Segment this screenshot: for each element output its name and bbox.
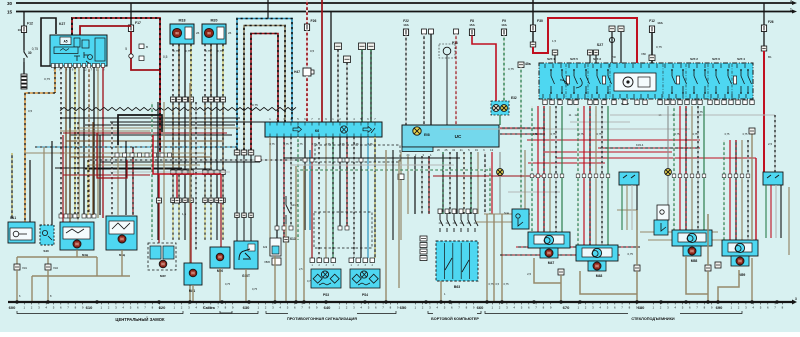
svg-text:M: M — [120, 237, 124, 242]
wire F30 down — [532, 32, 534, 43]
svg-text:1,5: 1,5 — [552, 39, 557, 43]
svg-text:26: 26 — [228, 31, 232, 35]
wire F12r down — [651, 33, 653, 64]
svg-text:X13: X13 — [290, 237, 296, 241]
wire H47 to K6 unit — [306, 76, 308, 122]
svg-text:10A: 10A — [657, 21, 663, 25]
S27 interior pin stubs — [543, 64, 746, 98]
wire stub x596 — [595, 55, 597, 63]
window motor M18 — [170, 19, 200, 45]
wire K27 loop — [41, 18, 56, 66]
wire F12 to switch — [23, 33, 25, 51]
connector H47 — [294, 68, 314, 76]
wire below lamp E51 right — [667, 175, 669, 205]
svg-text:0,75: 0,75 — [675, 133, 680, 136]
svg-text:M: M — [161, 262, 165, 267]
wire black loop left — [118, 115, 162, 145]
connector low x211 — [209, 198, 214, 203]
svg-text:0,75: 0,75 — [743, 133, 748, 136]
wire mesh h y147 — [35, 146, 237, 148]
wire feeder x133 — [132, 147, 134, 215]
wire green x521 — [520, 68, 522, 210]
wire continue x191 — [190, 103, 192, 171]
svg-text:10A: 10A — [403, 23, 409, 27]
wire feeder x93 — [92, 122, 94, 215]
wire below lamp E51 left — [499, 175, 501, 214]
wire ECU pin x55 — [54, 67, 56, 93]
connector KV — [749, 128, 755, 134]
ignition switch S dashed — [286, 196, 298, 224]
wire feeder x164 — [163, 102, 165, 240]
connector pair 350 360 — [422, 29, 434, 34]
wire to M50 top — [220, 203, 222, 247]
svg-text:2,5: 2,5 — [299, 267, 303, 271]
wire B63 to rail — [440, 281, 442, 302]
svg-text:ХЭ1: ХЭ1 — [22, 266, 28, 270]
wire feeder x100 — [99, 135, 101, 215]
wire continue3 x217 — [216, 203, 218, 241]
dashed outline alarm lower — [314, 212, 372, 248]
svg-text:M: M — [75, 242, 79, 247]
window motor assembly M47 — [528, 232, 570, 258]
wire drop x17 — [16, 257, 18, 264]
light switch unit S27 — [539, 43, 753, 99]
S27 section dividers — [566, 64, 732, 98]
wire K6 bottom x305 — [304, 137, 306, 230]
connector XB05 — [264, 258, 281, 265]
lamp unit E32 — [491, 101, 509, 115]
wire tan drop x487 — [486, 214, 488, 302]
svg-text:3: 3 — [795, 297, 797, 301]
connector under motor x179 — [177, 97, 182, 102]
motor M50 — [216, 253, 224, 261]
wire group x698 — [697, 106, 699, 230]
window lift console switches right — [763, 172, 783, 185]
connector low x185 — [183, 198, 188, 203]
rail junction dots — [15, 300, 778, 303]
wire feeder x44 — [43, 147, 45, 228]
fuse F26 — [304, 24, 309, 31]
wire M59 right to rail — [751, 258, 753, 302]
svg-text:3: 3 — [790, 0, 792, 3]
wire feeder x126 — [125, 141, 127, 215]
bracket alarm — [266, 311, 396, 314]
connector X44 — [157, 198, 162, 203]
svg-text:S27.5: S27.5 — [570, 57, 578, 61]
svg-text:15A: 15A — [469, 23, 475, 27]
wire continue x211 — [210, 103, 212, 171]
connector hairpin x237 — [234, 150, 240, 155]
svg-text:0,75: 0,75 — [489, 282, 495, 286]
motor M59 — [736, 257, 744, 265]
wire feeder x152 — [151, 102, 153, 240]
lamp in E32 right — [501, 105, 508, 112]
symbol PB6 — [609, 37, 614, 42]
wire drop x371 — [370, 50, 372, 123]
wire mesh h y122 — [110, 121, 265, 123]
wire red drop x177 — [176, 174, 178, 198]
svg-text:670: 670 — [563, 305, 570, 310]
wire tan drop x494 — [493, 214, 495, 302]
wire top black x533 — [532, 0, 534, 25]
svg-text:PS4: PS4 — [362, 293, 368, 297]
wire G10T to rail — [245, 269, 247, 302]
wire below X13 — [285, 242, 287, 302]
svg-text:26: 26 — [196, 31, 200, 35]
wire red drop x159 — [158, 174, 160, 198]
wire E32 to UC — [499, 115, 501, 125]
svg-text:M58: M58 — [691, 259, 698, 263]
motor M47 — [545, 249, 553, 257]
wire red loop left — [97, 133, 127, 178]
wire mesh right y170 — [298, 169, 490, 171]
wire mesh right y163 — [528, 162, 605, 164]
wire red from ECU pin — [80, 26, 131, 35]
wire M18 pin 1 — [172, 44, 174, 97]
wire ECU pin x84 — [83, 67, 85, 218]
wire X4 drop — [707, 214, 709, 265]
wire X1 to rail — [560, 275, 562, 302]
svg-text:0,75: 0,75 — [283, 142, 289, 146]
svg-text:0,75: 0,75 — [217, 49, 223, 53]
wire M18 pin 3 — [184, 44, 186, 97]
bracket computer — [428, 311, 481, 314]
wire UC bottom x408 — [407, 156, 409, 214]
lock actuator M mid — [106, 216, 137, 250]
wire group x736 — [735, 140, 737, 240]
wire K6 bottom x361 — [360, 137, 362, 258]
wire continue2 x205 — [204, 175, 206, 199]
wire feeder x70 — [69, 128, 71, 224]
wire tan drop x502 — [501, 214, 503, 302]
wire continue x173 — [172, 103, 174, 171]
wire feeder x12 — [11, 153, 13, 218]
wire drop x338 — [337, 50, 339, 123]
wire mesh right y122 — [570, 121, 630, 123]
connector mid x211 — [209, 170, 214, 175]
wire M20 pin 2 — [210, 44, 212, 97]
wire K6 bottom x284 — [283, 137, 285, 240]
wire continue x205 — [204, 103, 206, 171]
wire drop2 x17 — [16, 270, 18, 302]
svg-text:0,5: 0,5 — [28, 109, 33, 113]
wire K6 bottom x354 — [353, 137, 355, 258]
svg-text:40a: 40a — [525, 62, 531, 66]
wire mesh h y141 — [66, 140, 222, 142]
wire K6 bottom x291 — [290, 137, 292, 230]
wire UC bottom x471 — [470, 152, 472, 214]
svg-text:A5: A5 — [63, 40, 67, 44]
svg-text:0,75: 0,75 — [508, 67, 514, 71]
wire tan x296 — [295, 166, 297, 302]
wire UC bottom x464 — [463, 152, 465, 214]
wire mesh right y115 — [610, 114, 775, 116]
wire mesh right y240 — [648, 239, 740, 241]
connector low x223 — [221, 198, 226, 203]
svg-text:0,75: 0,75 — [656, 45, 662, 49]
svg-text:M47: M47 — [548, 261, 555, 265]
wire hairpin drop x244 — [243, 155, 245, 213]
wire X2 to rail — [636, 271, 638, 302]
wire drop x347 — [346, 63, 348, 123]
wire drop x97 — [96, 257, 98, 276]
wire K6 bottom x319 — [318, 137, 320, 258]
wire tall tan — [189, 83, 191, 302]
wire continue x223 — [222, 103, 224, 171]
wire red right edge — [763, 51, 765, 172]
connector low x173 — [171, 198, 176, 203]
pin connectors PS4 — [349, 258, 375, 267]
wire from rail 15 to fuse F12 — [23, 12, 25, 27]
connector 30a — [552, 50, 558, 55]
onboard computer unit UC — [402, 125, 499, 152]
connector under motor x191 — [189, 97, 194, 102]
svg-text:0,75: 0,75 — [725, 133, 730, 136]
svg-text:S27: S27 — [597, 43, 603, 47]
wire group x686 — [685, 106, 687, 230]
svg-text:F12: F12 — [649, 19, 655, 23]
svg-text:630: 630 — [243, 305, 250, 310]
wire K6 bottom x298 — [297, 137, 299, 240]
wire blue x310 — [309, 150, 311, 230]
svg-text:S1/27: S1/27 — [291, 203, 298, 207]
wire tan bus2 — [32, 275, 130, 277]
fuse F8 — [469, 29, 474, 36]
window lift console switches left — [619, 172, 639, 185]
svg-text:B: B — [146, 45, 148, 49]
wire mesh h y135 — [70, 134, 232, 136]
wire black x331 — [330, 12, 332, 123]
wire hairpin drop2 x251 — [250, 218, 252, 249]
svg-text:2,5: 2,5 — [768, 142, 773, 146]
svg-text:0,75: 0,75 — [339, 142, 345, 146]
wire tan x752 — [751, 134, 753, 240]
connector X4 — [705, 265, 711, 271]
wire mesh h y172 — [110, 171, 230, 173]
wire group x550 — [549, 106, 551, 232]
connector top x338 — [335, 43, 342, 50]
wire tan x399 — [398, 160, 400, 288]
wire K6 bottom x347 — [346, 137, 348, 230]
window motor M20 — [202, 19, 232, 45]
switch row above B63 — [438, 209, 478, 232]
wire x401 drop — [400, 152, 402, 240]
svg-text:S27.4: S27.4 — [737, 57, 745, 61]
wire stub S27 x555 — [554, 55, 556, 63]
svg-text:610: 610 — [86, 305, 93, 310]
svg-text:M: M — [595, 264, 599, 269]
svg-text:1: 1 — [790, 8, 792, 12]
ECU bottom pin tabs — [51, 64, 104, 68]
svg-text:0,75: 0,75 — [693, 133, 698, 136]
connector under motor x185 — [183, 97, 188, 102]
values under K6 — [269, 142, 373, 146]
svg-text:K33.4: K33.4 — [636, 143, 644, 147]
wire mesh h y131 — [60, 130, 150, 132]
window motor assembly M48 — [576, 245, 618, 271]
wire K6 bottom x375 — [374, 137, 376, 258]
wire red x756 to M59 — [755, 158, 757, 240]
svg-text:UC: UC — [455, 134, 462, 139]
connector under motor x211 — [209, 97, 214, 102]
wire hairpin drop2 x244 — [243, 218, 245, 249]
wire continue2 x211 — [210, 175, 212, 199]
wire to lamp E51 left — [499, 152, 501, 169]
connector X1 — [558, 269, 564, 275]
connector 40d — [618, 26, 624, 32]
wire mesh right y140 — [527, 139, 700, 141]
ground rail bottom — [8, 297, 797, 305]
fuse F30 — [530, 25, 535, 32]
svg-text:0,75: 0,75 — [252, 287, 258, 291]
wire group x562 — [561, 106, 563, 232]
wire ECU pin x66 — [65, 67, 67, 218]
wire top to F26 — [306, 0, 308, 24]
svg-text:Calibra: Calibra — [203, 306, 215, 310]
svg-text:ХЭ4: ХЭ4 — [53, 266, 59, 270]
wires below console right — [766, 185, 781, 238]
lamp E51 left — [497, 169, 504, 176]
wire M18 pin 2 — [178, 44, 180, 97]
wire tall gray — [195, 102, 197, 250]
svg-text:S27.2: S27.2 — [690, 57, 698, 61]
connector under motor x205 — [203, 97, 208, 102]
wire group x590 — [589, 106, 591, 245]
S27 bottom pin connectors — [543, 100, 754, 105]
svg-text:H47: H47 — [294, 70, 300, 74]
svg-text:M48: M48 — [596, 274, 603, 278]
svg-text:S40: S40 — [43, 249, 49, 253]
wire mesh h y160 — [90, 159, 310, 161]
dashed outline alarm relay — [315, 145, 400, 162]
svg-text:M: M — [191, 271, 195, 276]
wire group x730 — [729, 140, 731, 240]
wire continue2 x173 — [172, 175, 174, 199]
actuator M50 — [210, 247, 230, 268]
bracket calibra — [220, 311, 232, 313]
wire continue3 x205 — [204, 203, 206, 241]
wire group x596 — [595, 106, 597, 245]
svg-text:F26: F26 — [311, 19, 317, 23]
wire rail30 to F17 — [130, 3, 132, 25]
svg-text:30: 30 — [28, 51, 32, 55]
connector X2 — [634, 265, 640, 271]
svg-text:680: 680 — [638, 305, 645, 310]
svg-text:0,75: 0,75 — [353, 142, 359, 146]
wires below console left — [622, 185, 637, 230]
wire UC bottom x415 — [414, 156, 416, 214]
wire mesh right y255 — [500, 254, 620, 256]
wire red top x322 — [321, 0, 323, 122]
wire tan x304 — [303, 166, 305, 302]
wire group x602 — [601, 106, 603, 245]
fuse F17 — [128, 25, 133, 32]
connector stack left of B63 — [420, 236, 427, 261]
wire drop x32 — [31, 276, 33, 302]
connector row under ECU wires — [59, 214, 96, 218]
svg-text:B63: B63 — [454, 285, 460, 289]
wire group x742 — [741, 140, 743, 240]
fuse F9 — [501, 29, 506, 36]
svg-text:10: 10 — [18, 28, 22, 32]
wire K6 bottom x368 — [367, 137, 369, 258]
svg-text:0,75: 0,75 — [185, 49, 191, 53]
wire M20 pin 3 — [216, 44, 218, 97]
wire tan right edge — [788, 187, 790, 255]
wire mesh h y157 — [70, 156, 210, 158]
svg-text:0,75: 0,75 — [311, 142, 317, 146]
connector under motor x217 — [215, 97, 220, 102]
svg-text:S27.3: S27.3 — [593, 57, 601, 61]
wire blk x393 — [392, 150, 394, 240]
svg-text:M41: M41 — [189, 289, 195, 293]
svg-text:600: 600 — [9, 305, 16, 310]
wire group x578 — [577, 106, 579, 245]
window motor assembly M58 — [672, 230, 712, 256]
connector B right — [761, 46, 767, 51]
svg-text:0,75: 0,75 — [252, 103, 258, 107]
wire feeder x78 — [77, 122, 79, 224]
svg-text:K27: K27 — [59, 22, 65, 26]
motor in actuator left — [73, 240, 81, 248]
connector mid x173 — [171, 170, 176, 175]
svg-text:S27.1: S27.1 — [547, 57, 555, 61]
connector mid x185 — [183, 170, 188, 175]
svg-text:650: 650 — [400, 305, 407, 310]
wire continue3 x223 — [222, 203, 224, 241]
wire M47 return — [534, 258, 561, 283]
S27 pin numbers — [569, 113, 702, 117]
wire to lamp E51 right — [667, 106, 669, 169]
wire x456 — [455, 34, 457, 125]
wire mesh h y175 — [63, 174, 150, 176]
S27 section labels — [547, 57, 745, 106]
wire ECU pin x75 — [74, 67, 76, 218]
wire group x724 — [723, 140, 725, 240]
wire group x544 — [543, 106, 545, 232]
S27 internal contacts — [550, 69, 751, 94]
wire x612 to S27 — [611, 32, 613, 63]
bracket window lifts — [485, 311, 742, 314]
wire green x490 — [489, 166, 491, 214]
svg-text:M20: M20 — [211, 19, 218, 23]
wire group x674 — [673, 106, 675, 230]
wire continue3 x211 — [210, 203, 212, 241]
svg-text:M: M — [547, 251, 551, 256]
fog lamp unit PS3 — [311, 269, 341, 288]
svg-text:F17: F17 — [135, 21, 141, 25]
wire red drop x221 — [220, 174, 222, 198]
wire group x608 — [607, 106, 609, 245]
wire mesh right y247 — [516, 246, 640, 248]
wire drop x362 — [361, 50, 363, 123]
lamp in E32 left — [493, 105, 500, 112]
lock switch SA1 — [8, 216, 35, 243]
wire ECU pin x98 — [97, 67, 99, 218]
wire red bus mid — [153, 135, 221, 174]
wire UC bottom x478 — [477, 152, 479, 214]
wire switch to connector X6 — [23, 62, 25, 74]
connector mid x223 — [221, 170, 226, 175]
connector 40s — [609, 26, 615, 32]
svg-text:0,75: 0,75 — [269, 142, 275, 146]
wire mesh right y192 — [508, 191, 560, 193]
twisted wire wavy — [60, 107, 296, 110]
wire mesh right y232 — [640, 231, 718, 233]
wire to M41 top — [190, 203, 192, 263]
wire continue3 x179 — [178, 203, 180, 241]
wire M48 return — [580, 271, 637, 294]
